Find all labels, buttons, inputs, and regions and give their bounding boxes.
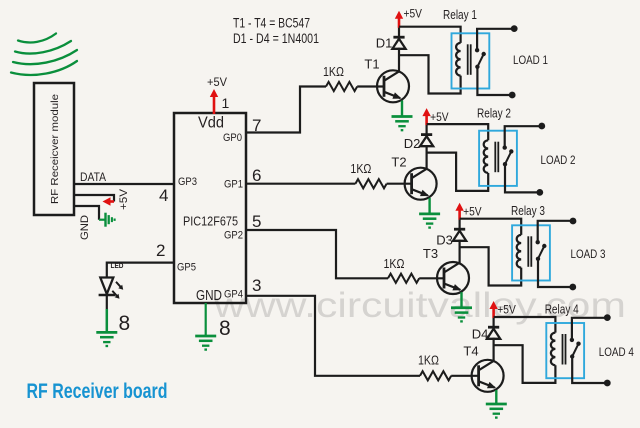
wire GND stub green — [99, 219, 106, 221]
terminal dot relay 2 bottom — [536, 189, 543, 196]
svg-text:D1 - D4 = 1N4001: D1 - D4 = 1N4001 — [233, 31, 319, 46]
wire relay 4 NO contact to terminal — [572, 318, 607, 340]
wire T3 emitter — [460, 292, 462, 308]
antenna waves — [11, 34, 77, 75]
ground (T2) — [419, 214, 440, 228]
svg-text:T1: T1 — [364, 57, 379, 72]
wire relay 2 common to terminal — [505, 164, 540, 192]
svg-text:5: 5 — [252, 212, 261, 231]
wire relay 1 NO contact to terminal — [477, 29, 514, 50]
wire +5V rail to relay 4 coil — [494, 317, 556, 333]
wire GND (RF module) — [74, 206, 99, 220]
+5V arrow (relay 3) — [455, 203, 463, 220]
transistor T3 BC547 — [437, 262, 469, 294]
wire T2 emitter — [428, 198, 430, 214]
wire LED cathode — [106, 295, 108, 309]
svg-text:7: 7 — [252, 116, 261, 135]
wire GP pin to R1 — [246, 87, 326, 133]
svg-text:T2: T2 — [391, 155, 406, 170]
svg-text:+5V: +5V — [118, 188, 130, 210]
relay 2 core — [494, 142, 496, 173]
wire R4 to T4 base — [451, 375, 478, 377]
wire relay 3 common to terminal — [538, 259, 573, 287]
relay 2 switch — [503, 145, 514, 166]
svg-text:DATA: DATA — [80, 172, 106, 184]
transistor T2 BC547 — [405, 168, 437, 200]
svg-text:Relay 4: Relay 4 — [545, 302, 579, 317]
wire relay 2 NO contact to terminal — [505, 126, 542, 147]
svg-text:GND: GND — [79, 215, 91, 240]
svg-text:LED: LED — [111, 261, 125, 270]
relay 4 coil — [551, 333, 556, 366]
relay 1 core — [467, 44, 469, 75]
resistor R2 1K — [355, 179, 386, 188]
wire GP5 pin2 to LED — [107, 263, 174, 278]
ground (T3) — [451, 308, 472, 322]
svg-text:+5V: +5V — [463, 207, 482, 219]
ground (IC GND) — [195, 336, 216, 350]
wire R3 to T3 base — [419, 277, 444, 279]
terminal dot relay 1 top — [511, 25, 518, 32]
wire +5V rail to relay 2 coil — [427, 124, 489, 140]
wire relay 4 coil to collector node — [494, 345, 556, 383]
svg-text:6: 6 — [252, 166, 261, 185]
wire relay 3 NO contact to terminal — [538, 221, 573, 242]
terminal dot relay 1 bottom — [509, 92, 516, 99]
svg-text:4: 4 — [159, 186, 168, 205]
relay 1 coil — [456, 43, 460, 76]
svg-text:Relay 2: Relay 2 — [477, 106, 511, 121]
svg-text:GP1: GP1 — [224, 179, 243, 191]
RF receiver module box — [34, 83, 74, 215]
svg-text:D1: D1 — [376, 36, 393, 51]
ground (RF module, rotated right) — [106, 213, 115, 227]
transistor T1 BC547 — [377, 70, 409, 102]
svg-text:RF Receiver board: RF Receiver board — [27, 380, 168, 403]
svg-text:LOAD 1: LOAD 1 — [513, 55, 548, 67]
svg-text:8: 8 — [119, 312, 131, 335]
terminal dot relay 4 bottom — [604, 380, 611, 387]
wire relay 3 coil to collector node — [460, 247, 522, 285]
wire D2 cathode to +5V rail — [426, 124, 428, 135]
wire +5V rail to relay 1 coil — [399, 27, 461, 43]
svg-text:8: 8 — [219, 317, 231, 340]
svg-text:LOAD 3: LOAD 3 — [571, 249, 606, 261]
svg-text:+5V: +5V — [207, 77, 227, 89]
ground (T4) — [486, 404, 507, 418]
svg-text:+5V: +5V — [404, 9, 423, 21]
wire relay 1 common to terminal — [477, 67, 512, 95]
+5V arrow (relay 1) — [395, 11, 403, 28]
LED D5 — [99, 278, 124, 299]
svg-text:T3: T3 — [423, 246, 438, 261]
svg-text:GP0: GP0 — [223, 132, 242, 144]
svg-text:1KΩ: 1KΩ — [350, 162, 371, 176]
svg-text:D3: D3 — [436, 233, 453, 248]
IC U1 PIC12F675 box — [174, 113, 246, 303]
svg-text:1KΩ: 1KΩ — [418, 353, 439, 367]
svg-text:GP4: GP4 — [224, 289, 243, 301]
relay 3 core — [527, 236, 529, 266]
ground (LED) — [96, 309, 117, 346]
relay 1 box — [452, 33, 490, 88]
wire GP pin to R3 — [246, 230, 388, 278]
relay 1 switch — [475, 48, 486, 69]
diode D2 1N4001 — [420, 135, 433, 147]
relay 4 box — [546, 323, 584, 378]
svg-text:+5V: +5V — [497, 304, 516, 316]
resistor R4 1K — [420, 371, 451, 380]
svg-text:Relay 1: Relay 1 — [443, 7, 477, 22]
svg-text:T4: T4 — [463, 344, 478, 359]
wire T4 collector to D4 — [493, 338, 495, 362]
+5V arrow (Vdd pin 1) — [210, 89, 218, 114]
svg-text:D4: D4 — [472, 327, 489, 342]
wire D1 cathode to +5V rail — [398, 27, 400, 38]
wire GP pin to R2 — [246, 183, 355, 185]
wire T1 emitter — [401, 101, 403, 117]
wire GP pin to R4 — [246, 296, 420, 376]
terminal dot relay 3 top — [570, 218, 577, 225]
resistor R1 1K — [326, 82, 357, 91]
relay 3 switch — [536, 240, 547, 261]
svg-text:LOAD 4: LOAD 4 — [599, 347, 635, 359]
diode D4 1N4001 — [487, 327, 500, 339]
wire relay 4 common to terminal — [572, 357, 607, 384]
svg-text:Vdd: Vdd — [198, 115, 224, 132]
diode D1 1N4001 — [392, 37, 405, 49]
+5V arrow (relay 4) — [489, 301, 497, 318]
svg-text:GP3: GP3 — [178, 176, 197, 188]
wire DATA (RF module to GP3) — [74, 183, 174, 185]
terminal dot relay 3 bottom — [569, 284, 576, 291]
svg-text:D2: D2 — [404, 136, 421, 151]
svg-text:T1 - T4 = BC547: T1 - T4 = BC547 — [233, 16, 310, 31]
ground (T1) — [392, 117, 413, 131]
terminal dot relay 2 top — [538, 123, 545, 130]
wire IC GND green — [205, 303, 207, 336]
resistor R3 1K — [388, 274, 419, 283]
svg-text:PIC12F675: PIC12F675 — [183, 214, 238, 229]
svg-text:GP2: GP2 — [224, 230, 243, 242]
wire relay 2 coil to collector node — [427, 153, 489, 191]
relay 3 box — [512, 225, 550, 280]
relay 2 coil — [484, 140, 489, 173]
wire D3 cathode to +5V rail — [459, 219, 461, 230]
wire T4 emitter — [495, 390, 497, 404]
relay 2 box — [479, 131, 517, 186]
wire R1 to T1 base — [357, 85, 384, 87]
svg-text:1KΩ: 1KΩ — [384, 257, 405, 271]
svg-text:LOAD 2: LOAD 2 — [541, 155, 576, 167]
+5V arrow (relay 2) — [422, 108, 430, 125]
wire T3 collector to D3 — [459, 240, 461, 264]
svg-text:2: 2 — [156, 241, 165, 260]
transistor T4 BC547 — [472, 360, 504, 392]
svg-text:GND: GND — [196, 288, 222, 304]
svg-text:+5V: +5V — [430, 112, 449, 124]
wire +5V (RF module) — [74, 195, 114, 202]
svg-text:1KΩ: 1KΩ — [323, 65, 344, 79]
svg-text:1: 1 — [222, 95, 230, 111]
terminal dot relay 4 top — [604, 314, 611, 321]
wire +5V rail to relay 3 coil — [460, 219, 522, 235]
+5V arrow (RF module, pointing left) — [103, 197, 115, 205]
wire R2 to T2 base — [387, 183, 412, 185]
relay 3 coil — [517, 235, 522, 268]
svg-text:RF Receicver module: RF Receicver module — [49, 94, 61, 204]
diode D3 1N4001 — [453, 229, 466, 241]
wire relay 1 coil to collector node — [399, 55, 461, 93]
svg-text:Relay 3: Relay 3 — [511, 203, 545, 218]
wire T2 collector to D2 — [426, 145, 428, 169]
wire D4 cathode to +5V rail — [493, 317, 495, 327]
relay 4 switch — [570, 338, 581, 359]
svg-text:GP5: GP5 — [177, 262, 196, 274]
wire T1 collector to D1 — [398, 48, 400, 72]
relay 4 core — [562, 334, 564, 365]
svg-text:3: 3 — [252, 276, 261, 295]
